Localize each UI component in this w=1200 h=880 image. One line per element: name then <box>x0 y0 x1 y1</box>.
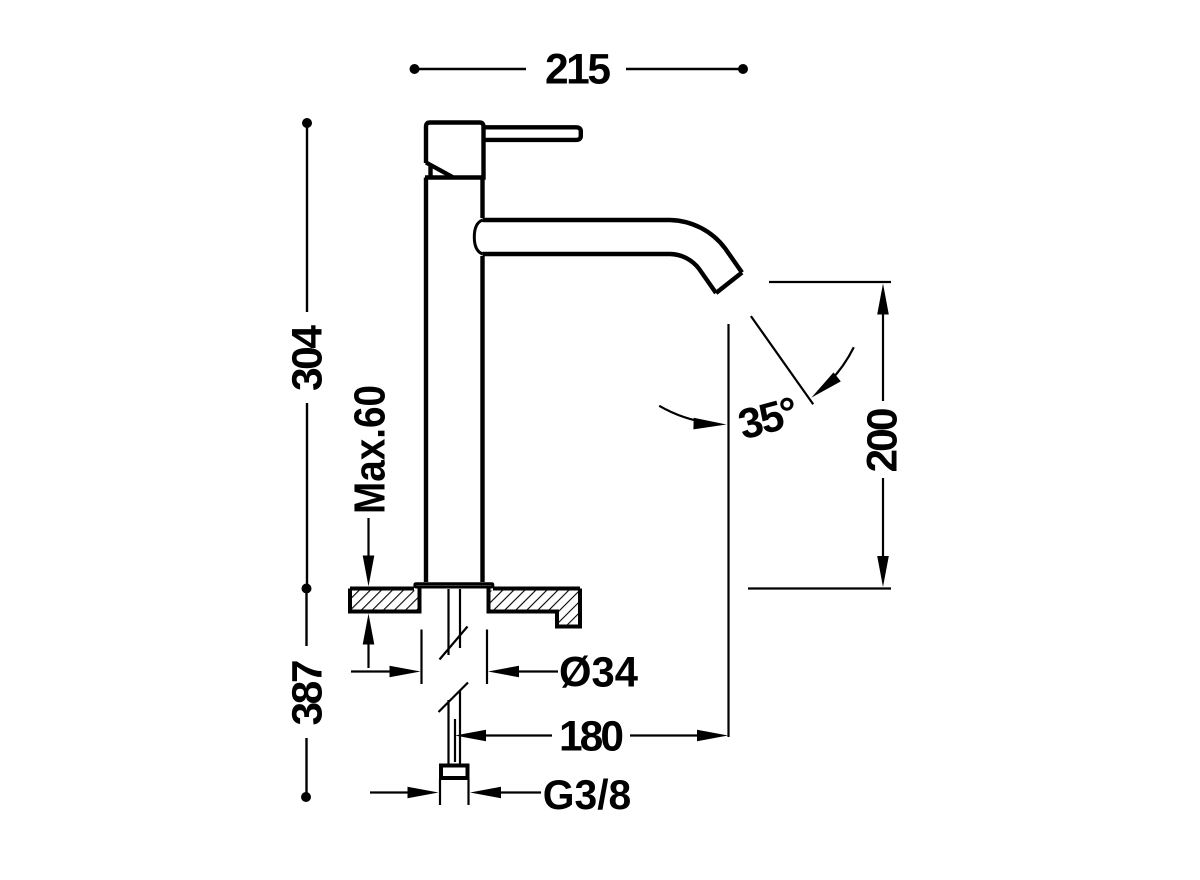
svg-text:304: 304 <box>285 325 332 391</box>
dimension G3/8: right extension line <box>467 779 469 805</box>
dimension 200: bottom extension line <box>748 587 891 589</box>
dimension Ø34: left extension line <box>420 630 422 685</box>
35 degree arc left piece <box>659 406 711 424</box>
body column right edge above spout <box>480 178 484 219</box>
35 degree slanted line <box>751 316 813 404</box>
spout top edge <box>483 220 743 273</box>
dimension Ø34: right arrow <box>488 666 519 678</box>
svg-text:387: 387 <box>285 660 332 726</box>
counter top line right part <box>493 587 580 591</box>
dimension Ø34: right extension line <box>486 630 488 685</box>
dimension 200: bottom arrow pointing down <box>882 478 884 559</box>
Max.60 upper arrow pointing down to counter top <box>367 518 369 558</box>
supply pipe left edge upper <box>447 589 449 655</box>
dimension 180: centerline extension <box>454 719 456 762</box>
dimension G3/8: left arrow <box>370 791 411 793</box>
counter top line left part <box>350 587 414 591</box>
svg-text:Ø34: Ø34 <box>559 650 638 697</box>
dimension 215: right line segment <box>626 68 741 70</box>
left dimension chain vertical line x=307 <box>302 118 312 128</box>
dimension G3/8: left extension line <box>439 779 441 805</box>
dimension 200: top extension line <box>769 281 891 283</box>
dimension 215 top: left dot <box>410 64 420 74</box>
svg-text:180: 180 <box>559 714 624 761</box>
spout outlet face <box>716 273 742 294</box>
svg-text:G3/8: G3/8 <box>543 771 632 818</box>
Max.60 lower arrow pointing up to counter bottom <box>363 614 375 645</box>
supply pipe right edge lower <box>459 690 461 764</box>
head chamfer line <box>426 163 453 178</box>
handle lever <box>484 127 581 140</box>
supply pipe right edge upper <box>459 589 461 648</box>
dimension 180: right segment and arrow <box>630 734 700 736</box>
dimension G3/8: right arrow <box>470 787 501 799</box>
counter left block outline <box>350 589 420 612</box>
dimension 215: right dot <box>738 64 748 74</box>
vertical reference line below spout <box>727 324 729 737</box>
spout left end cap <box>474 220 482 254</box>
pipe break slash 1 <box>440 627 468 660</box>
35 degree arc right piece <box>821 347 853 389</box>
body column left edge <box>424 178 428 583</box>
small joint line under chamfer <box>428 167 432 178</box>
dimension 200: top arrow pointing up <box>877 284 889 315</box>
body column right edge below spout <box>480 256 484 582</box>
dimension 180: left arrow <box>455 730 486 742</box>
base flange on counter <box>415 584 493 587</box>
svg-text:Max.60: Max.60 <box>346 385 395 514</box>
svg-text:215: 215 <box>545 47 611 94</box>
left chain bottom dot <box>301 792 311 802</box>
counter hatching right <box>491 591 579 625</box>
35 degree arc right arrowhead <box>811 372 840 397</box>
dimension Ø34: left arrow <box>351 670 393 672</box>
35 degree arc left arrowhead <box>693 418 726 430</box>
faucet head (cartridge housing) <box>425 123 484 178</box>
left chain middle dot at counter level <box>302 584 312 594</box>
svg-text:200: 200 <box>860 408 907 473</box>
pipe break slash 2 <box>439 683 469 713</box>
counter right block outline with step <box>489 589 581 627</box>
supply pipe left edge lower <box>447 700 449 764</box>
dimension 215: left line segment <box>417 68 526 70</box>
G3/8 end fitting <box>441 766 468 779</box>
spout bottom edge <box>483 254 717 293</box>
counter hatching left <box>351 591 418 610</box>
